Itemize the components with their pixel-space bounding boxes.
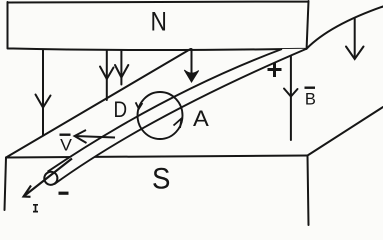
velocity V arrow head xyxy=(75,130,87,143)
circle loop left arrowhead xyxy=(136,102,143,109)
field arrow 2 shaft xyxy=(106,50,108,100)
field arrow on right face head xyxy=(346,47,364,60)
B overbar xyxy=(305,87,316,89)
plus sign xyxy=(268,63,282,78)
rod end cap xyxy=(42,169,60,187)
S pole front top edge xyxy=(6,156,308,158)
S pole right slant edge xyxy=(308,107,383,156)
V overbar xyxy=(60,134,71,136)
S pole front-right edge xyxy=(308,156,309,226)
svg-text:V: V xyxy=(60,135,72,154)
circle field loop around rod xyxy=(138,92,183,139)
rod upper edge xyxy=(48,49,282,172)
field arrow B-bar shaft xyxy=(290,49,292,140)
minus sign xyxy=(59,192,69,195)
current I arrow shaft through cap xyxy=(24,159,73,197)
velocity V arrow shaft xyxy=(75,136,116,138)
svg-text:N: N xyxy=(151,7,167,37)
S pole top-left edge xyxy=(6,49,191,158)
field arrow 3 head xyxy=(115,65,128,78)
field arrow 2 head xyxy=(100,67,114,80)
svg-text:S: S xyxy=(152,162,170,195)
field arrow 1 shaft xyxy=(42,50,44,136)
conductor rod body (white fill occludes behind) xyxy=(43,49,306,185)
field arrow on right face shaft xyxy=(354,19,356,59)
field arrow 4 shaft xyxy=(191,49,193,78)
field arrow B-bar head xyxy=(284,89,298,97)
field arrow 1 head xyxy=(36,95,51,108)
circle loop right arrowhead xyxy=(174,119,182,129)
label I xyxy=(33,205,38,212)
S pole front-left edge xyxy=(5,158,7,211)
N pole magnet front face xyxy=(8,1,309,50)
field arrow 3 shaft xyxy=(120,50,122,85)
current I arrow head xyxy=(24,186,32,197)
svg-text:D: D xyxy=(114,97,128,122)
svg-text:B: B xyxy=(305,91,316,109)
field arrow 4 filled head xyxy=(184,70,198,82)
N pole right side bottom slant xyxy=(307,7,383,49)
rod lower edge xyxy=(54,49,306,185)
svg-text:A: A xyxy=(193,106,209,131)
